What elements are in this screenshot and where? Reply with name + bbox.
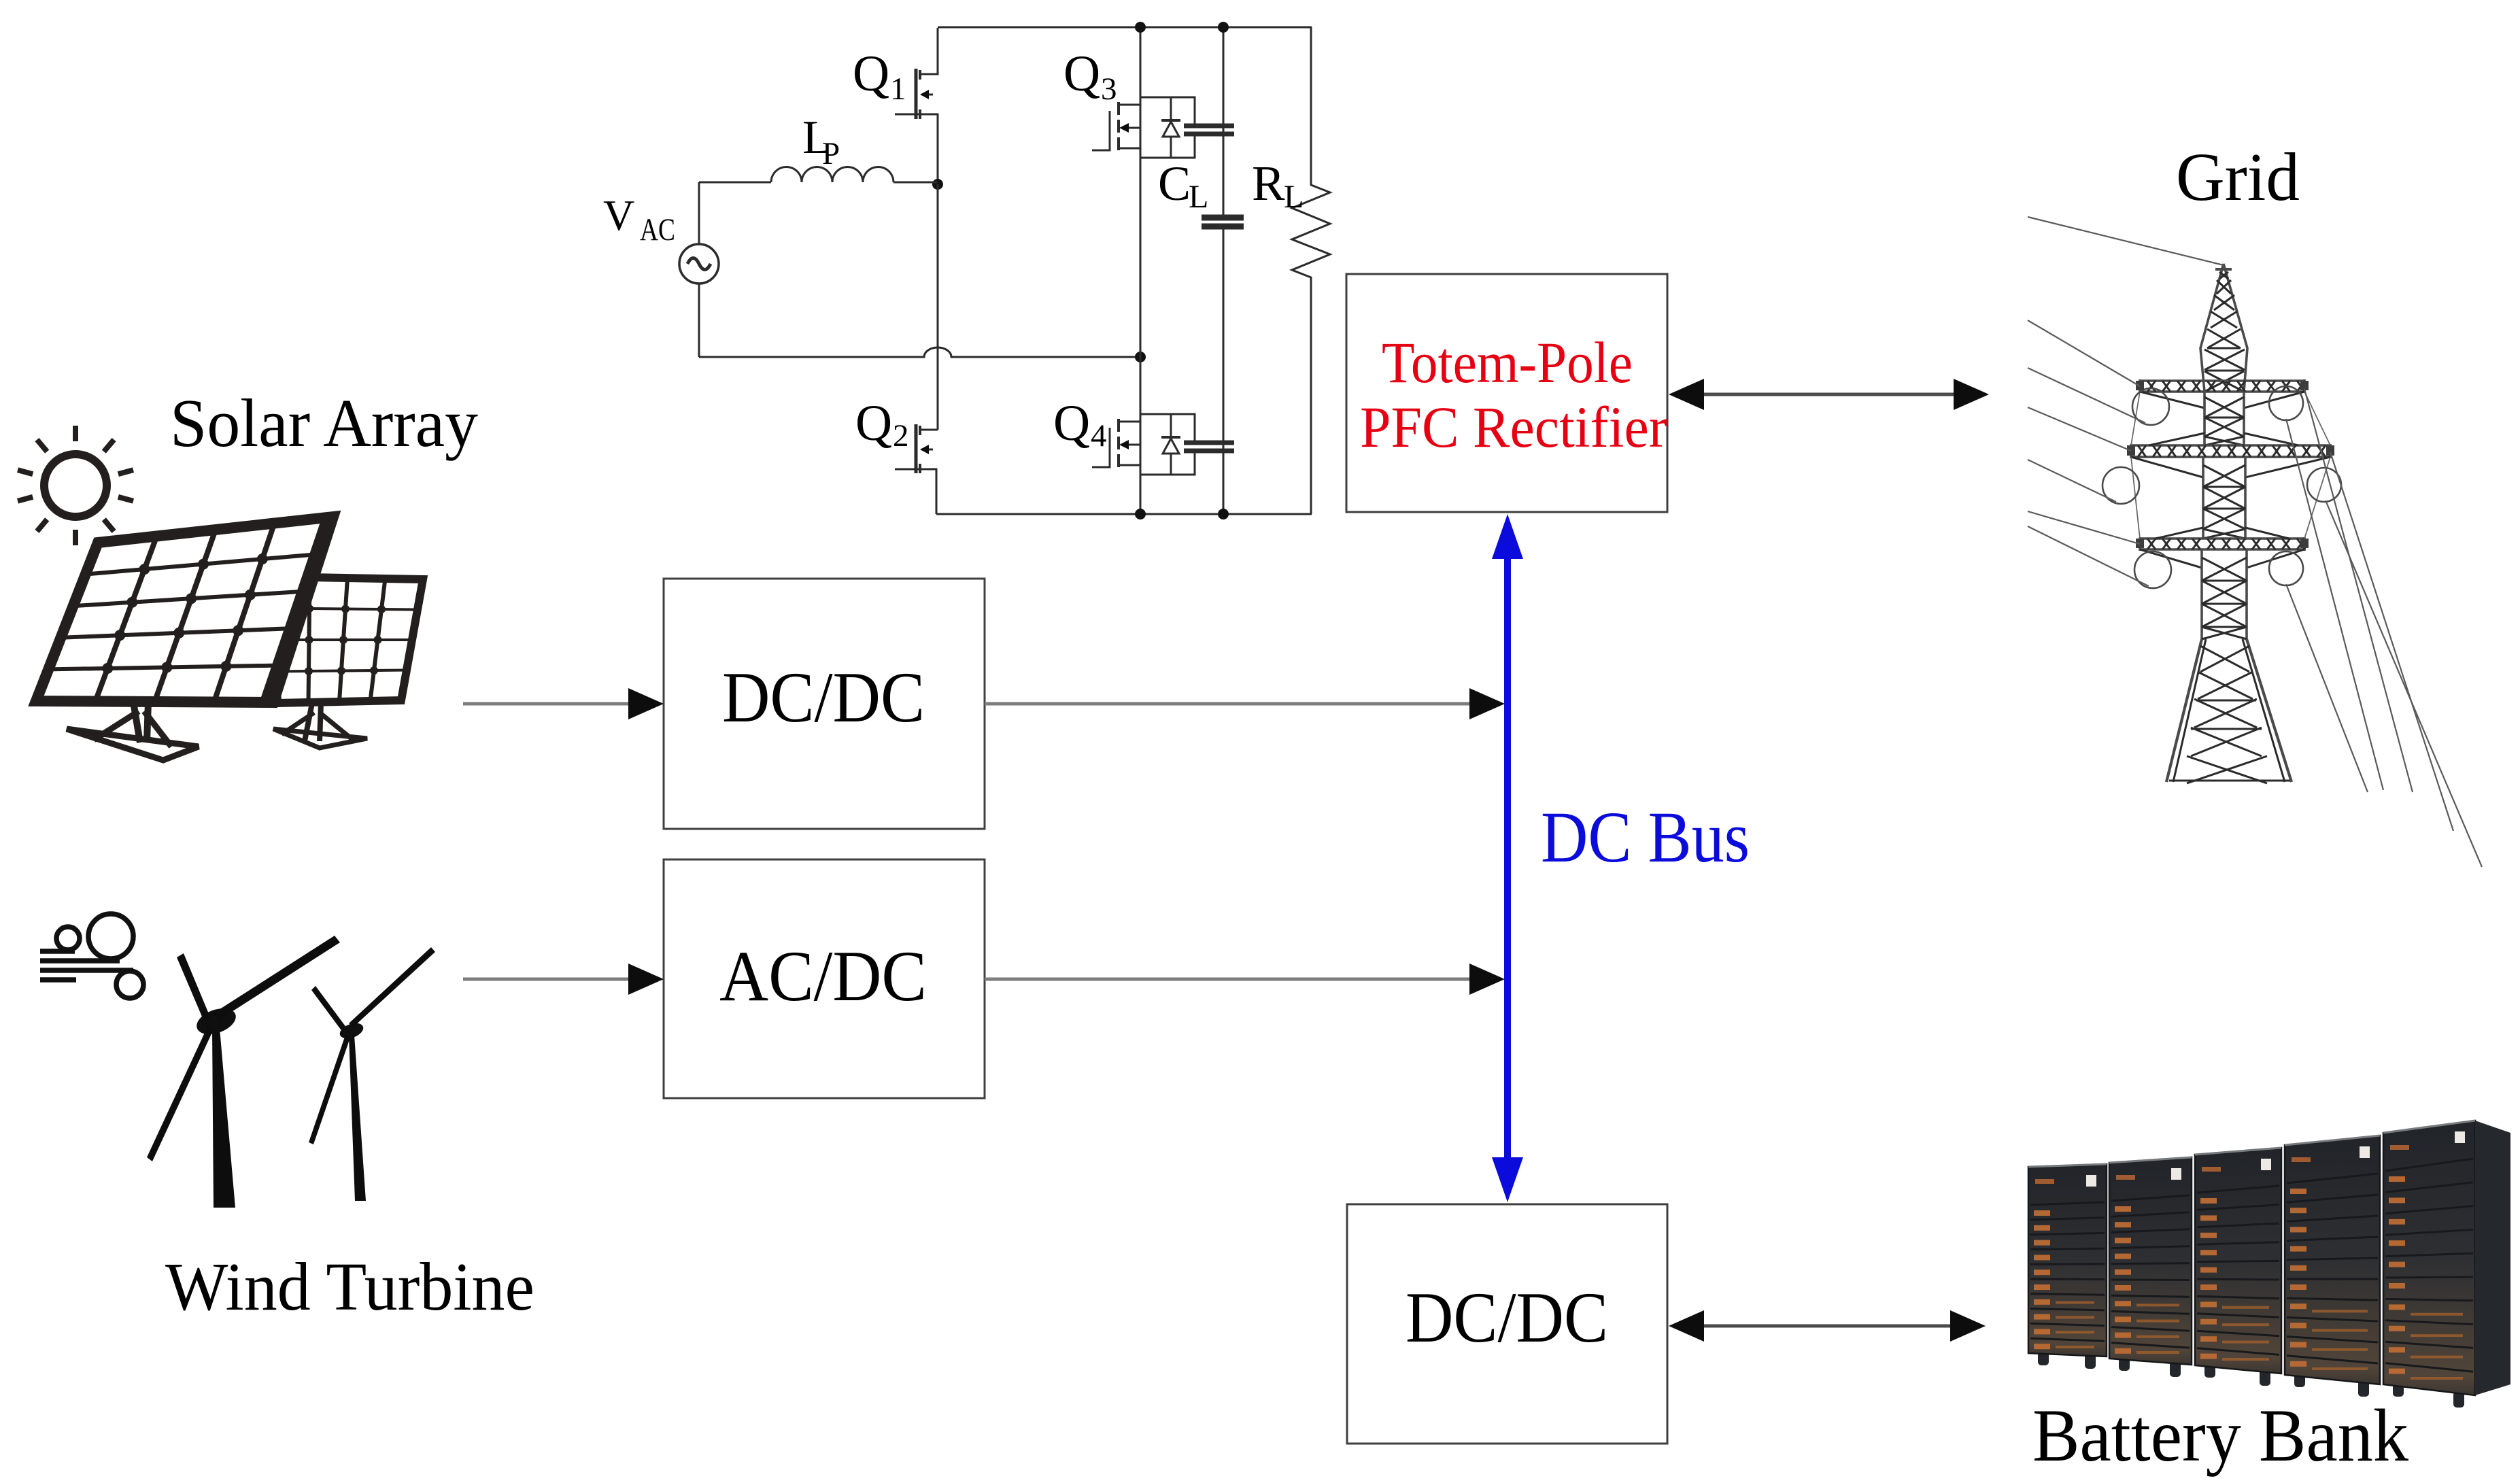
svg-text:Q: Q (1063, 46, 1100, 102)
svg-text:AC/DC: AC/DC (719, 936, 927, 1016)
transistor Q4 (1092, 419, 1140, 467)
svg-text:2: 2 (893, 418, 909, 454)
svg-text:L: L (1284, 179, 1304, 215)
box Totem-Pole PFC Rectifier (1346, 274, 1667, 512)
svg-text:Q: Q (853, 46, 889, 102)
node bottom rail / Q4 leg (1135, 509, 1146, 519)
wire wind turbine to AC/DC (463, 978, 632, 981)
svg-text:DC/DC: DC/DC (1406, 1278, 1608, 1357)
wire VAC top lead (698, 182, 700, 244)
resistor RL branch (1292, 27, 1330, 514)
box DC/DC (battery) (1347, 1204, 1667, 1444)
insulator rings (2132, 388, 2169, 425)
wire Q1 drain to top rail (919, 28, 938, 74)
svg-text:R: R (1252, 156, 1285, 211)
svg-text:Wind Turbine: Wind Turbine (165, 1248, 534, 1325)
svg-text:PFC Rectifier: PFC Rectifier (1360, 394, 1667, 460)
power lines (left) (2028, 217, 2224, 586)
solar panel (front) (36, 517, 333, 760)
svg-text:DC Bus: DC Bus (1541, 798, 1750, 878)
node top rail / Q3 leg (1135, 22, 1146, 33)
wind gust icon (40, 914, 143, 998)
svg-text:Q: Q (855, 395, 892, 451)
wire Q1 gate lead / source (895, 114, 938, 184)
wire PFC rectifier to grid (bidirectional) (1700, 393, 1956, 396)
inductor LP (699, 167, 938, 182)
wire DC/DC to DC bus (985, 702, 1472, 706)
transistor Q2 (919, 429, 938, 431)
svg-text:AC: AC (640, 212, 675, 248)
wire VAC bottom lead (698, 284, 700, 357)
solar panel (rear) (272, 577, 423, 748)
battery rack side face (2475, 1121, 2510, 1395)
svg-text:Battery Bank: Battery Bank (2032, 1394, 2408, 1477)
capacitor CL branch (1202, 27, 1244, 514)
battery rack (2204, 1361, 2215, 1378)
wire Q3/Q4 centre leg (top rail to bottom rail) (1140, 27, 1142, 514)
wire AC/DC to DC bus (985, 978, 1472, 981)
wire Q2 gate lead / source to bottom rail (895, 469, 936, 514)
svg-text:3: 3 (1101, 71, 1117, 107)
DC bus (bidirectional blue) (1492, 514, 1523, 1202)
wind turbine (rear) (309, 947, 435, 1201)
box AC/DC (wind) (664, 859, 985, 1098)
svg-text:4: 4 (1091, 418, 1107, 454)
node bottom rail / CL (1218, 509, 1229, 519)
battery rack (2119, 1354, 2130, 1371)
transistor Q1 (916, 69, 933, 119)
node top rail / CL (1218, 22, 1229, 33)
wire solar array to DC/DC (463, 702, 632, 706)
box DC/DC (solar) (664, 579, 985, 829)
svg-text:V: V (603, 191, 634, 239)
transmission tower (grid) (2102, 264, 2341, 783)
svg-text:Totem-Pole: Totem-Pole (1382, 330, 1633, 395)
wind turbine (front) (147, 936, 340, 1208)
svg-text:1: 1 (890, 71, 906, 107)
svg-text:Grid: Grid (2176, 139, 2300, 215)
svg-text:C: C (1158, 156, 1191, 211)
battery rack (2294, 1371, 2305, 1387)
battery rack (2038, 1349, 2049, 1365)
sun icon (18, 426, 133, 545)
wire mid rail with hop over Q leg (699, 347, 1140, 357)
svg-text:L: L (1189, 179, 1208, 215)
diode D4 + snubber capacitor across Q4 (1140, 414, 1234, 475)
diode D3 + snubber capacitor across Q3 (1140, 97, 1234, 158)
wire top rail (938, 27, 1312, 29)
battery rack (2393, 1380, 2404, 1397)
wire bottom rail (936, 513, 1312, 515)
transistor Q3 (1092, 102, 1140, 150)
svg-text:DC/DC: DC/DC (722, 658, 925, 737)
node A junction dot (LP / Q1 / Q2 leg) (932, 179, 943, 190)
wire DC/DC to battery bank (bidirectional) (1700, 1325, 1953, 1328)
power lines (right, sagging) (2286, 389, 2482, 867)
node B junction dot (mid rail / Q3-Q4 leg) (1135, 352, 1146, 362)
wire node A down to Q2 (passes under hop) (937, 184, 939, 430)
svg-text:Q: Q (1053, 395, 1090, 451)
svg-text:Solar Array: Solar Array (170, 385, 478, 461)
svg-text:P: P (822, 136, 840, 171)
source VAC (AC source) (679, 244, 719, 284)
